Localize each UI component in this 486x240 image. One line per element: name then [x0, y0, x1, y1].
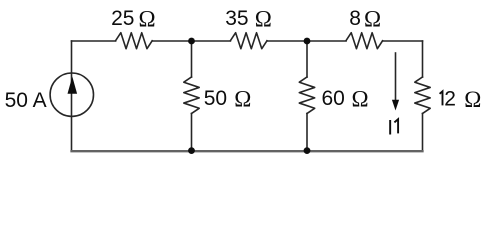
resistor R 50 ohm (vertical) — [184, 77, 199, 114]
wire left vertical (source branch) — [71, 41, 73, 151]
svg-text:8: 8 — [349, 7, 361, 30]
svg-text:Ω: Ω — [234, 87, 251, 112]
wire top segment 2 — [152, 40, 230, 42]
node A dot top — [188, 38, 195, 45]
node A dot bottom — [188, 147, 195, 154]
current arrow I1 head — [392, 100, 399, 111]
svg-text:35: 35 — [225, 7, 248, 30]
wire branch node B upper — [306, 41, 308, 77]
wire right vertical lower — [422, 114, 424, 152]
current arrow I1 shaft — [395, 53, 397, 102]
node B dot top — [304, 38, 311, 45]
svg-text:I: I — [387, 116, 393, 139]
resistor R 35 ohm — [230, 33, 267, 49]
svg-text:Ω: Ω — [139, 7, 156, 32]
resistor R 60 ohm (vertical) — [299, 77, 314, 114]
wire top segment 3 — [267, 40, 346, 42]
svg-text:2: 2 — [444, 88, 456, 111]
svg-text:50: 50 — [204, 87, 227, 110]
svg-text:Ω: Ω — [464, 87, 481, 112]
svg-text:25: 25 — [111, 7, 134, 30]
node B dot bottom — [304, 147, 311, 154]
wire top segment 1 — [72, 40, 116, 42]
svg-text:Ω: Ω — [364, 7, 381, 32]
wire branch node A lower — [191, 114, 193, 152]
wire branch node B lower — [306, 114, 308, 152]
resistor R 12 ohm (vertical) — [415, 77, 430, 114]
svg-text:Ω: Ω — [352, 87, 369, 112]
wire branch node A upper — [191, 41, 193, 77]
svg-text:50 A: 50 A — [5, 89, 47, 112]
label 12 ohm value — [440, 91, 443, 105]
resistor R 25 ohm — [116, 33, 153, 49]
current source circle — [50, 73, 93, 116]
wire top segment 4 — [383, 40, 423, 42]
svg-text:Ω: Ω — [255, 7, 272, 32]
resistor R 8 ohm — [346, 33, 383, 49]
svg-text:60: 60 — [322, 87, 345, 110]
wire right vertical upper — [422, 41, 424, 77]
wire bottom — [72, 150, 423, 152]
current source arrowhead — [68, 77, 78, 94]
label I1 digit — [394, 119, 398, 133]
